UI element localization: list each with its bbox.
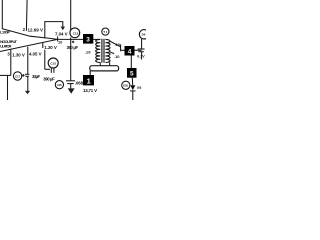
diode D6 circle label right edge [139,30,148,39]
svg-text:1.30 V: 1.30 V [12,52,25,57]
svg-text:1: 1 [87,77,91,86]
wire bus to box1 [89,71,91,75]
svg-text:.068: .068 [75,81,84,86]
wire IC left vertical [1,0,3,29]
svg-text:1.30 V: 1.30 V [44,45,57,50]
svg-text:4: 4 [128,49,132,56]
svg-text:ULATOR: ULATOR [0,44,12,49]
svg-text:V9: V9 [137,86,142,90]
wire pin3 branch down [10,49,12,75]
svg-text:T1: T1 [103,30,108,34]
svg-text:C15: C15 [50,61,56,65]
transformer T1 secondary winding [105,39,110,62]
wire box4 to box5 [130,56,132,69]
wire C16 to ground [70,84,72,89]
svg-text:7.04 V: 7.04 V [55,31,68,36]
svg-text:5: 5 [130,71,134,78]
wire T1 primary bottom lead [99,63,101,66]
wire right rail [141,39,143,49]
wire vertical to C12 [70,0,72,31]
capacitor C15 circle label [48,58,58,68]
capacitor C16 circle label [55,81,63,89]
wire below C18 [141,52,143,60]
svg-text:.10: .10 [114,54,120,59]
svg-text:L100P: L100P [0,30,10,35]
wire 390uF branch down [44,50,46,70]
wire box5 to diode [131,78,133,86]
diode D10 cathode bar [130,90,135,92]
transformer T1 primary winding [96,39,101,62]
test point 5 [127,68,137,78]
capacitor C17 circle label [13,72,21,80]
capacitor C18 plates [138,48,145,50]
wire diagonal pin3 to node10 [0,39,57,51]
svg-text:D10: D10 [123,84,128,88]
IC U1 switching output regulator label [0,30,18,49]
diode D10 circle label [122,81,130,89]
svg-text:33µF: 33µF [32,74,40,79]
svg-text:10: 10 [58,39,62,44]
svg-text:390 µF: 390 µF [67,45,79,50]
test point 4 [125,46,135,56]
pin hatch node10 [57,37,59,42]
wire 33uF branch down [27,47,29,75]
wire T1 secondary mid stub [110,52,114,53]
capacitor C15 plates [50,68,52,72]
pin hatch secondary [120,44,122,51]
wire to box4 [121,49,125,51]
wire T1 secondary bottom lead [109,63,111,66]
wire bottom left corner [0,74,11,76]
arrowhead of feedback hook [61,27,65,31]
transformer T1 circle label [102,28,109,35]
svg-text:13,71 V: 13,71 V [83,88,97,93]
transformer bottom bus loop [90,66,119,71]
svg-text:C16: C16 [57,83,62,87]
wire box4 to right rail [135,49,142,51]
svg-text:C17: C17 [15,74,20,78]
capacitor C16 plates [66,80,75,82]
capacitor C12 circle label [70,28,80,38]
svg-text:C12: C12 [73,31,79,35]
wire feedback hook [45,22,63,39]
svg-text:D6: D6 [142,33,146,37]
pin hatch 4 [42,43,44,48]
diode D10 [130,85,135,90]
svg-text:.19: .19 [85,50,92,55]
wire box3 to T1 [93,38,100,40]
svg-text:390 µF: 390 µF [43,76,55,81]
wire pin 2 vertical [25,0,28,31]
svg-text:3: 3 [86,37,90,44]
plus sign C17 [22,74,25,76]
svg-text:6.3V: 6.3V [137,55,145,59]
ground arrow mid [68,88,75,93]
wire node10 to box3 [57,38,83,40]
wire T1 secondary top lead [110,41,120,46]
transformer T1 core [101,39,103,63]
wire diode to bottom edge [132,91,134,100]
test point 3 [83,34,93,44]
svg-text:4.05 V: 4.05 V [29,51,42,56]
wire C12 down the middle [70,38,72,81]
test point 1 [83,75,94,86]
capacitor C17 plates [25,73,29,75]
ground arrow left [25,91,30,94]
svg-text:12.69 V: 12.69 V [28,27,44,32]
svg-text:.10: .10 [115,42,121,47]
wire diagonal pin2 to node10 [2,29,57,40]
plus sign C12 [72,41,74,43]
